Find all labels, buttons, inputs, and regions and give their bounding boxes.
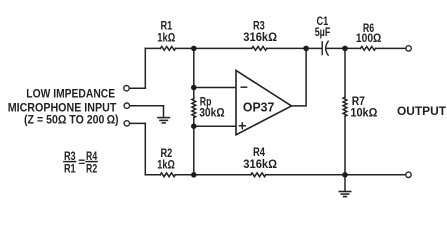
node junction bottom right (342, 172, 348, 178)
wire mid vertical lower (193, 118, 195, 175)
svg-text:30kΩ: 30kΩ (199, 106, 225, 120)
svg-text:316kΩ: 316kΩ (243, 157, 277, 171)
svg-text:LOW IMPEDANCE: LOW IMPEDANCE (26, 86, 115, 100)
resistor R3 (252, 47, 267, 51)
svg-text:1kΩ: 1kΩ (157, 157, 175, 171)
node junction Rp bottom (191, 123, 197, 129)
svg-text:OUTPUT: OUTPUT (397, 104, 447, 118)
wire bottom rail left segment (145, 174, 160, 176)
wire inverting input (194, 87, 236, 89)
wire input3 vertical down (144, 123, 146, 174)
wire R6 to output terminal (376, 47, 405, 49)
wire right vertical lower (344, 116, 346, 175)
wire top rail R3 to C1 (267, 47, 321, 49)
wire mid vertical upper (193, 48, 195, 98)
ground G1 stem (163, 106, 165, 117)
op-amp minus sign (241, 86, 246, 88)
svg-text:OP37: OP37 (243, 100, 274, 114)
wire op-amp output (292, 48, 307, 106)
op-amp U1 triangle (236, 71, 292, 135)
svg-text:10kΩ: 10kΩ (350, 106, 377, 120)
capacitor C1 (322, 41, 328, 55)
ground G1 bars (157, 118, 170, 123)
svg-text:=: = (78, 155, 85, 169)
terminal input 1 (124, 86, 129, 91)
op-amp plus sign (240, 123, 246, 129)
svg-text:R2: R2 (86, 161, 97, 175)
node junction top right of C1 (342, 46, 348, 52)
wire top rail R1 to R3 (176, 47, 252, 49)
svg-text:5µF: 5µF (315, 25, 331, 39)
svg-text:R1: R1 (64, 161, 76, 175)
svg-text:1kΩ: 1kΩ (157, 30, 175, 44)
terminal input 2 (124, 103, 129, 108)
resistor Rp (192, 99, 196, 118)
svg-text:100Ω: 100Ω (356, 31, 382, 45)
terminal input 3 (124, 121, 129, 126)
wire top rail C1 to R6 (327, 47, 361, 49)
svg-text:316kΩ: 316kΩ (243, 30, 277, 44)
wire input1 vertical up (144, 48, 146, 88)
wire right vertical upper (344, 48, 346, 97)
ground G2 stem (344, 175, 346, 191)
resistor R6 (361, 47, 376, 51)
node junction top-mid (191, 46, 197, 52)
ground G2 bars (339, 192, 352, 197)
formula fraction bar left (63, 161, 76, 163)
resistor R1 (161, 47, 176, 51)
wire input3 horizontal (130, 122, 146, 124)
terminal output bottom (406, 172, 411, 177)
wire top rail left segment (145, 47, 160, 49)
formula fraction bar right (85, 161, 97, 163)
node junction bottom-mid (191, 172, 197, 178)
wire input2 to ground (130, 105, 164, 107)
wire noninverting input (194, 125, 236, 127)
resistor R4 (251, 173, 266, 177)
node junction Rp top (191, 85, 197, 91)
resistor R7 (343, 97, 347, 116)
wire input1 horizontal (129, 87, 145, 89)
wire bottom rail R4 to output (266, 174, 405, 176)
svg-text:(Z = 50Ω TO 200 Ω): (Z = 50Ω TO 200 Ω) (24, 112, 119, 126)
wire bottom rail R2 to R4 (175, 174, 251, 176)
resistor R2 (160, 173, 175, 177)
node junction top op-amp output (303, 46, 309, 52)
terminal output top (406, 46, 411, 51)
